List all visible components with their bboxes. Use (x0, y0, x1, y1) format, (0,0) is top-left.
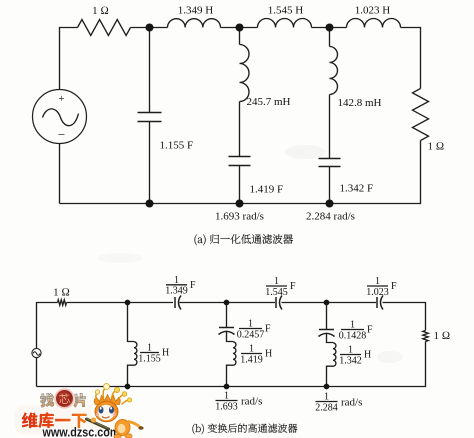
node junction (b) m2 (224, 300, 230, 306)
svg-text:H: H (162, 348, 169, 359)
watermark weiku yixia (22, 412, 87, 428)
watermark char pian (73, 393, 86, 407)
svg-text:1.349: 1.349 (165, 286, 188, 297)
(b) wire C3 to load (383, 303, 426, 331)
node junction (b) m5 (224, 384, 230, 390)
svg-text:−: − (58, 127, 65, 142)
capacitor C1 1.155 F (138, 28, 162, 204)
svg-text:H: H (265, 349, 272, 360)
svg-text:1 Ω: 1 Ω (434, 330, 451, 342)
wire: L1 to L2 (221, 27, 258, 29)
node junction (a) n6 (326, 200, 334, 208)
node junction (a) n2 (236, 24, 244, 32)
node junction (b) m1 (125, 300, 131, 306)
svg-text:1.155 F: 1.155 F (160, 140, 194, 152)
svg-text:1.023: 1.023 (366, 287, 389, 298)
watermark red seal with xin (55, 389, 74, 408)
svg-text:2.284: 2.284 (315, 402, 338, 413)
svg-text:1.693 rad/s: 1.693 rad/s (215, 211, 264, 223)
resistor R1 1 ohm source (a) (78, 20, 131, 36)
wire: RL to bottom rail (60, 141, 421, 204)
node junction (b) m6 (324, 384, 330, 390)
svg-text:1 Ω: 1 Ω (53, 287, 70, 299)
svg-text:1.023 H: 1.023 H (355, 5, 391, 17)
(b) inductor 1/1.342 H branch 3 (327, 343, 336, 387)
svg-text:F: F (391, 281, 397, 292)
node junction (b) m4 (125, 384, 131, 390)
svg-text:1.419: 1.419 (240, 354, 263, 365)
node junction (a) n1 (146, 24, 154, 32)
inductor L3 1.023 H (347, 19, 401, 28)
wire: R1 to L1 (131, 27, 168, 29)
(b) resistor 1 ohm source (58, 300, 67, 305)
svg-text:F: F (290, 281, 296, 292)
caption (b) transformed high-pass filter (192, 424, 297, 435)
(b) wire load to bottom rail (37, 342, 426, 387)
svg-text:1.342 F: 1.342 F (340, 183, 374, 195)
(b) source circle (32, 348, 41, 357)
svg-text:1.545 H: 1.545 H (268, 5, 304, 17)
inductor 245.7 mH branch 2 (240, 28, 250, 102)
svg-text:1.349 H: 1.349 H (178, 5, 214, 17)
wire: L3 to load resistor (401, 28, 421, 89)
svg-text:F: F (190, 280, 196, 291)
(b) inductor 1/1.155 H branch 1 (128, 303, 137, 387)
voltage source Vs (a) (33, 90, 87, 144)
(b) wire: source top corner (37, 303, 58, 349)
svg-text:1.342: 1.342 (339, 355, 362, 366)
svg-text:F: F (367, 325, 373, 336)
(b) resistor 1 ohm load (423, 331, 428, 342)
(b) wire to C1 (67, 302, 174, 304)
mascot (87, 384, 144, 438)
(b) wire C1-C2 (180, 302, 276, 304)
(b) inductor 1/1.419 H branch 2 (227, 342, 236, 387)
(b) capacitor 1/0.2457 F branch 2 (226, 303, 228, 328)
resistor RL 1 ohm load (a) (413, 89, 429, 141)
svg-text:1.155: 1.155 (138, 353, 161, 364)
svg-text:rad/s: rad/s (241, 396, 262, 408)
svg-text:0.1428: 0.1428 (339, 330, 367, 341)
(b) wire source bottom (36, 358, 38, 387)
node junction (a) n5 (236, 200, 244, 208)
capacitor 1.342 F branch 3 (319, 95, 341, 204)
svg-text:rad/s: rad/s (341, 397, 362, 409)
(b) series capacitor 1/1.349 F (174, 297, 176, 308)
inductor L1 1.349 H (168, 19, 221, 28)
watermark warm wash (15, 405, 123, 435)
svg-text:1.693: 1.693 (215, 401, 238, 412)
svg-text:2.284 rad/s: 2.284 rad/s (306, 211, 355, 223)
inductor L2 1.545 H (258, 19, 312, 28)
wire: L2 to L3 (312, 27, 347, 29)
(b) series capacitor 1/1.023 F (376, 297, 378, 308)
svg-text:142.8 mH: 142.8 mH (338, 97, 382, 109)
node junction (a) n4 (146, 200, 154, 208)
svg-text:+: + (58, 93, 64, 105)
svg-text:1.545: 1.545 (265, 287, 288, 298)
caption (a) gui-yi-hua low-pass filter (195, 234, 294, 245)
svg-text:F: F (265, 324, 271, 335)
(b) wire C2-C3 (282, 302, 377, 304)
svg-text:1 Ω: 1 Ω (428, 141, 445, 153)
svg-text:1.419 F: 1.419 F (250, 184, 284, 196)
svg-text:H: H (364, 350, 371, 361)
(b) series capacitor 1/1.545 F (275, 297, 277, 308)
wire: source bottom (59, 144, 61, 204)
node junction (b) m3 (324, 300, 330, 306)
watermark char zhao (40, 393, 54, 407)
node junction (a) n3 (326, 24, 334, 32)
wire: source top to R1 (60, 28, 78, 90)
inductor 142.8 mH branch 3 (330, 28, 338, 95)
svg-text:0.2457: 0.2457 (237, 329, 265, 340)
svg-text:1 Ω: 1 Ω (92, 5, 109, 17)
(b) capacitor 1/0.1428 F branch 3 (326, 303, 328, 330)
capacitor 1.419 F branch 2 (229, 102, 251, 204)
svg-text:245.7 mH: 245.7 mH (247, 96, 291, 108)
